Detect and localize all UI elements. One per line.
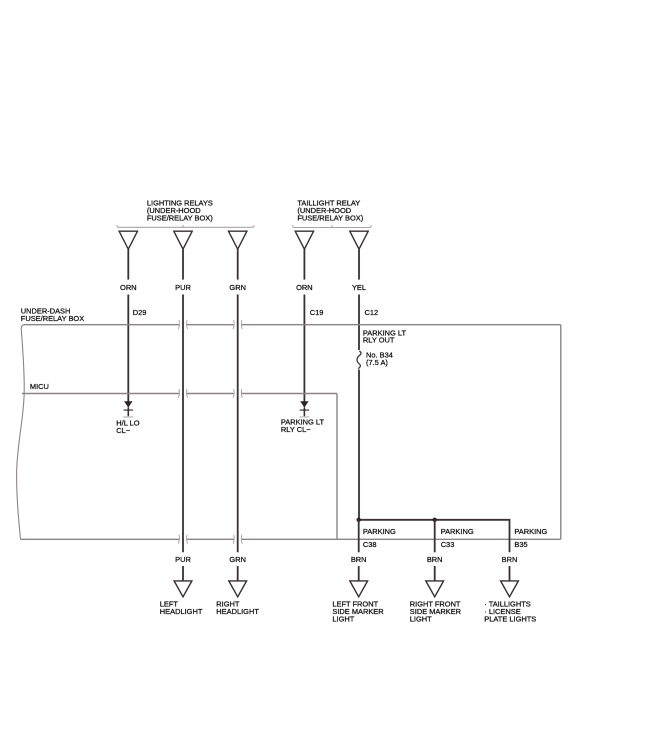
- svg-text:B35: B35: [514, 540, 527, 549]
- label TAILLIGHT RELAY (UNDER-HOOD FUSE/RELAY BOX): [297, 199, 363, 223]
- svg-text:RLY CL−: RLY CL−: [281, 425, 311, 434]
- arrow to RIGHT FRONT SIDE MARKER LIGHT: [426, 581, 444, 597]
- label H/L LO CL-: [116, 419, 140, 436]
- label LEFT FRONT SIDE MARKER LIGHT: [332, 599, 384, 623]
- label TAILLIGHTS LICENSE PLATE LIGHTS: [484, 599, 536, 623]
- pass-through mark W2 at bottom edge: [178, 535, 187, 544]
- wire W5 YEL segment to fuse: [358, 295, 360, 351]
- svg-text:MICU: MICU: [30, 382, 49, 391]
- svg-text:BRN: BRN: [351, 555, 367, 564]
- junction dot at W5/bus: [357, 518, 361, 522]
- svg-text:C19: C19: [310, 308, 324, 317]
- svg-text:HEADLIGHT: HEADLIGHT: [160, 607, 203, 616]
- wire C38 branch down: [358, 520, 360, 553]
- label RIGHT HEADLIGHT: [216, 599, 259, 616]
- wire C38 stem to left front side marker arrow: [358, 566, 360, 582]
- wire W5 YEL upper segment: [358, 249, 360, 279]
- wire W4 ORN lower segment into box: [303, 295, 305, 403]
- arrow to LEFT FRONT SIDE MARKER LIGHT: [350, 581, 368, 597]
- wire B35 stem to taillights arrow: [509, 566, 511, 582]
- svg-text:BRN: BRN: [427, 555, 443, 564]
- H/L LO CL- terminal symbol: [123, 401, 133, 417]
- fuse No. B34 symbol: [357, 351, 361, 369]
- arrow to TAILLIGHTS / LICENSE PLATE LIGHTS: [501, 581, 519, 597]
- bracket under LIGHTING RELAYS label: [117, 225, 254, 227]
- arrow to RIGHT HEADLIGHT: [229, 581, 247, 597]
- svg-text:PARKING: PARKING: [441, 527, 474, 536]
- box right edge: [560, 325, 562, 540]
- box bottom edge: [21, 538, 561, 540]
- label PARKING LT RLY CL-: [281, 418, 325, 435]
- arrow to LEFT HEADLIGHT: [174, 581, 192, 597]
- svg-text:C38: C38: [363, 540, 377, 549]
- svg-text:GRN: GRN: [229, 555, 246, 564]
- wire W3 GRN through box: [237, 295, 239, 553]
- wire C33 stem to right front side marker arrow: [434, 566, 436, 582]
- PARKING LT RLY CL- terminal symbol: [299, 401, 309, 417]
- svg-text:ORN: ORN: [120, 283, 137, 292]
- wire W1 ORN lower segment into box: [127, 295, 129, 403]
- label LIGHTING RELAYS (UNDER-HOOD FUSE/RELAY BOX): [147, 199, 213, 223]
- svg-text:BRN: BRN: [502, 555, 518, 564]
- svg-text:PARKING: PARKING: [363, 527, 396, 536]
- MICU boundary line: [22, 394, 337, 540]
- svg-text:C12: C12: [365, 308, 379, 317]
- connector triangle T5 (taillight relay, YEL): [350, 231, 368, 249]
- junction dot at C33 branch: [433, 518, 437, 522]
- svg-text:D29: D29: [133, 308, 147, 317]
- pass-through mark W3 at top edge: [233, 320, 242, 329]
- label No. B34 (7.5 A): [366, 351, 393, 368]
- connector triangle T3 (lighting relay, GRN): [229, 231, 247, 249]
- svg-text:YEL: YEL: [352, 283, 366, 292]
- label LEFT HEADLIGHT: [160, 599, 203, 616]
- svg-text:FUSE/RELAY BOX): FUSE/RELAY BOX): [147, 214, 213, 223]
- bus wire PARKING LT RLY OUT: [359, 520, 510, 553]
- pass-through mark W2 at top edge: [178, 320, 187, 329]
- svg-text:ORN: ORN: [296, 283, 313, 292]
- svg-text:FUSE/RELAY BOX: FUSE/RELAY BOX: [21, 314, 84, 323]
- pass-through mark W3 at MICU line: [233, 389, 242, 398]
- bracket under TAILLIGHT RELAY label: [293, 225, 372, 227]
- svg-text:GRN: GRN: [229, 283, 246, 292]
- label UNDER-DASH FUSE/RELAY BOX: [21, 306, 84, 323]
- svg-text:C33: C33: [441, 540, 455, 549]
- wire W5 from fuse down to bus: [358, 370, 360, 520]
- wire W2 PUR upper segment: [182, 249, 184, 279]
- svg-text:CL−: CL−: [116, 426, 130, 435]
- wire C33 branch down: [434, 520, 436, 553]
- label PARKING LT RLY OUT: [363, 328, 407, 344]
- wire W4 ORN upper segment: [303, 249, 305, 279]
- svg-text:(7.5 A): (7.5 A): [366, 358, 388, 367]
- connector triangle T2 (lighting relay, PUR): [174, 231, 192, 249]
- wire W1 ORN upper segment: [127, 249, 129, 279]
- wire W2 stem to left headlight arrow: [182, 566, 184, 582]
- box left wavy edge: [17, 325, 25, 540]
- svg-text:HEADLIGHT: HEADLIGHT: [216, 607, 259, 616]
- connector triangle T1 (lighting relay, ORN): [119, 231, 137, 249]
- svg-text:LIGHT: LIGHT: [410, 614, 432, 623]
- pass-through mark W3 at bottom edge: [233, 535, 242, 544]
- box top edge: [24, 324, 561, 326]
- label RIGHT FRONT SIDE MARKER LIGHT: [410, 599, 462, 623]
- svg-text:PLATE LIGHTS: PLATE LIGHTS: [484, 614, 536, 623]
- svg-text:PARKING: PARKING: [514, 527, 547, 536]
- svg-text:RLY OUT: RLY OUT: [363, 336, 395, 345]
- svg-text:PUR: PUR: [175, 555, 191, 564]
- svg-text:LIGHT: LIGHT: [332, 614, 354, 623]
- svg-text:FUSE/RELAY BOX): FUSE/RELAY BOX): [297, 214, 363, 223]
- wire W2 PUR through box: [182, 295, 184, 553]
- wire W3 stem to right headlight arrow: [237, 566, 239, 582]
- connector triangle T4 (taillight relay, ORN): [295, 231, 313, 249]
- wire W3 GRN upper segment: [237, 249, 239, 279]
- svg-text:PUR: PUR: [175, 283, 191, 292]
- pass-through mark W2 at MICU line: [178, 389, 187, 398]
